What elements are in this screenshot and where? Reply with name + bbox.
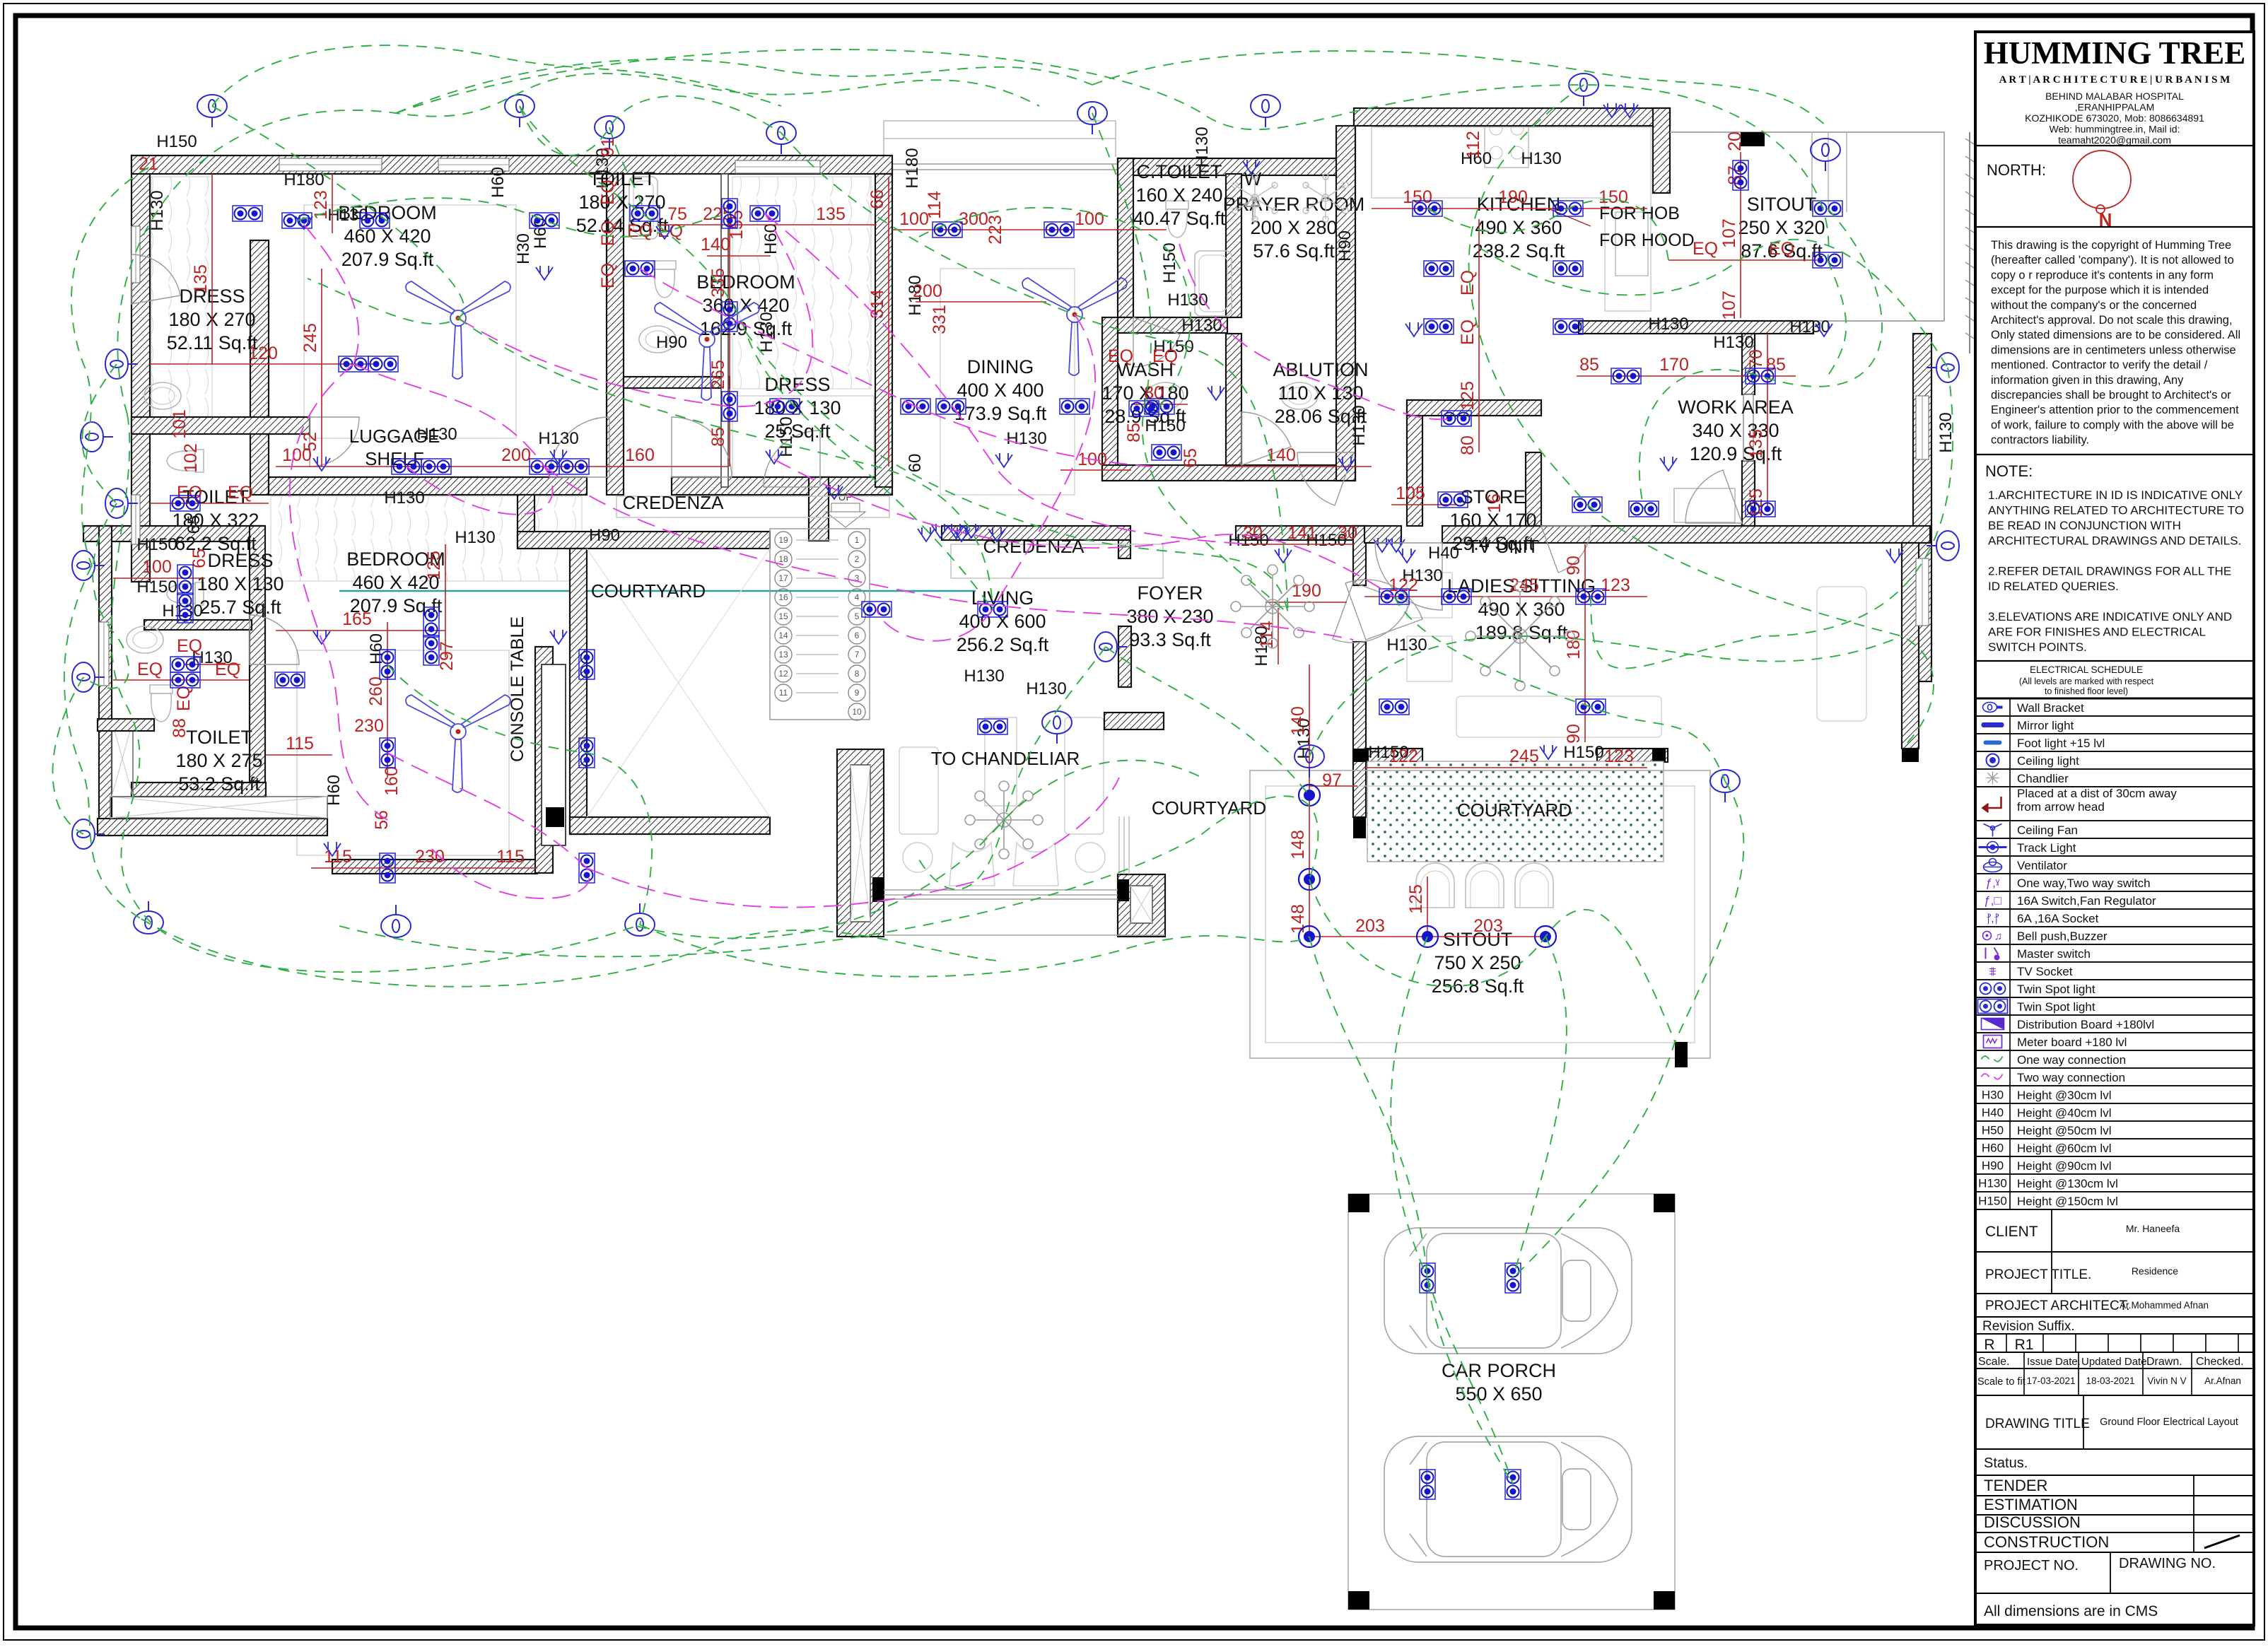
svg-text:EQ: EQ (1108, 346, 1133, 366)
door arc (1297, 452, 1354, 505)
wash basin (1147, 382, 1183, 409)
stippled courtyard (1367, 761, 1664, 862)
svg-text:165: 165 (342, 609, 372, 629)
twin spot light (1420, 1263, 1435, 1293)
svg-text:112: 112 (1463, 131, 1483, 159)
twin spot light (423, 607, 439, 637)
svg-text:17-03-2021: 17-03-2021 (2026, 1376, 2075, 1386)
svg-text:ID RELATED QUERIES.: ID RELATED QUERIES. (1988, 580, 2119, 593)
console table (542, 664, 566, 845)
ladies chairs (1407, 573, 1452, 618)
svg-text:53.2 Sq.ft: 53.2 Sq.ft (178, 773, 260, 795)
svg-text:PROJECT TITLE.: PROJECT TITLE. (1985, 1267, 2091, 1282)
wall dress2 south wall (672, 477, 892, 495)
svg-text:200: 200 (913, 281, 942, 301)
svg-text:TV UNIT: TV UNIT (1467, 536, 1538, 557)
section line (339, 590, 976, 592)
svg-text:400 X 400: 400 X 400 (957, 380, 1044, 401)
door arc (549, 417, 609, 477)
wall c.toilet west wall (1118, 158, 1133, 317)
svg-text:Status.: Status. (1984, 1455, 2028, 1471)
door arc (1375, 543, 1442, 610)
svg-text:EQ: EQ (598, 221, 618, 246)
svg-text:H150: H150 (136, 535, 177, 554)
svg-text:16: 16 (778, 592, 788, 602)
svg-text:ELECTRICAL SCHEDULE: ELECTRICAL SCHEDULE (2030, 664, 2143, 675)
svg-text:203: 203 (1355, 916, 1385, 936)
6A/16A socket (988, 527, 1005, 541)
scale/date header (1975, 1352, 2254, 1368)
window (131, 226, 140, 283)
wall bracket (1094, 632, 1127, 662)
svg-text:4: 4 (855, 592, 860, 602)
wall bracket (1710, 770, 1740, 802)
twin spot light (579, 738, 595, 768)
wall c.toilet south wall (1118, 317, 1227, 333)
twin spot light (1420, 1470, 1435, 1499)
svg-text:Foot light +15 lvl: Foot light +15 lvl (2017, 737, 2105, 750)
6A/16A socket (324, 842, 341, 856)
svg-text:DRAWING NO.: DRAWING NO. (2119, 1556, 2216, 1571)
one-way connection wire (1639, 209, 1882, 509)
two-way connection wire (1179, 244, 1456, 419)
wall kitchen south band (1579, 321, 1813, 334)
svg-text:⳨,⳨: ⳨,⳨ (1986, 913, 1999, 925)
wall lower divider wall (250, 526, 265, 783)
door arc (672, 417, 732, 477)
column (1654, 1591, 1675, 1610)
one-way connection wire (339, 796, 1318, 956)
svg-text:CLIENT: CLIENT (1985, 1224, 2038, 1240)
ceiling fan (406, 695, 510, 792)
lintel (1741, 132, 1765, 146)
one-way connection wire (1479, 240, 1948, 368)
6A/16A socket (536, 266, 553, 280)
toilet bowl (167, 450, 204, 472)
two-way connection wire (387, 753, 590, 898)
svg-text:H60: H60 (367, 633, 386, 664)
one-way connection wire (636, 761, 1202, 939)
one-way connection wire (82, 364, 117, 503)
wall bracket (81, 422, 113, 452)
svg-text:Ar.Mohammed Afnan: Ar.Mohammed Afnan (2120, 1300, 2209, 1311)
svg-text:FOR HOOD: FOR HOOD (1599, 230, 1695, 250)
svg-text:SWITCH POINTS.: SWITCH POINTS. (1988, 640, 2087, 654)
one-way connection wire (1391, 937, 1513, 1484)
wall tv block north wall e (1442, 526, 1930, 543)
credenza cabinet (951, 544, 1163, 578)
svg-text:110 X 130: 110 X 130 (1278, 382, 1363, 404)
luggage shelf box (271, 496, 582, 581)
column (1654, 1194, 1675, 1212)
twin spot light (1553, 261, 1583, 276)
svg-text:490 X 360: 490 X 360 (1475, 217, 1562, 238)
svg-text:of work, failure to comply: of work, failure to comply with the abov… (1991, 418, 2234, 431)
svg-text:Mr. Haneefa: Mr. Haneefa (2126, 1223, 2180, 1234)
svg-text:65: 65 (189, 549, 209, 568)
svg-text:Meter board +180 lvl: Meter board +180 lvl (2017, 1036, 2127, 1049)
wall c.toilet east wall (1226, 174, 1241, 317)
svg-text:mentioned. Contractor to: mentioned. Contractor to verify the deta… (1991, 359, 2208, 372)
svg-text:203: 203 (1473, 916, 1503, 936)
one-way connection wire (396, 59, 1092, 113)
svg-text:from arrow head: from arrow head (2017, 800, 2105, 814)
prayer arrow (1246, 197, 1260, 221)
svg-text:115: 115 (286, 734, 314, 754)
svg-text:Placed at a dist of 30cm away: Placed at a dist of 30cm away (2017, 787, 2177, 800)
svg-text:HUMMING TREE: HUMMING TREE (1984, 35, 2245, 71)
svg-text:140: 140 (701, 235, 730, 254)
wall luggage stub (809, 477, 829, 541)
svg-text:122: 122 (1389, 575, 1418, 595)
svg-text:245: 245 (300, 323, 320, 353)
svg-text:H180: H180 (283, 170, 324, 189)
svg-text:120.9 Sq.ft: 120.9 Sq.ft (1690, 443, 1782, 464)
svg-text:8: 8 (855, 669, 860, 679)
svg-text:H130: H130 (455, 528, 495, 547)
wall toilet1 top wall (131, 417, 310, 434)
svg-text:ANYTHING RELATED TO ARCHITECTU: ANYTHING RELATED TO ARCHITECTURE TO (1988, 504, 2244, 517)
wall bracket (505, 95, 534, 127)
svg-text:Ceiling Fan: Ceiling Fan (2017, 823, 2078, 837)
svg-text:107: 107 (1719, 291, 1739, 320)
ceiling light (1417, 926, 1438, 947)
twin spot light (368, 356, 398, 372)
svg-text:This drawing is the copyright: This drawing is the copyright of Humming… (1991, 239, 2231, 252)
twin spot light (1379, 699, 1409, 715)
svg-text:H150: H150 (1978, 1195, 2007, 1208)
svg-text:331: 331 (930, 305, 949, 334)
svg-text:16: 16 (1485, 493, 1504, 513)
wash basin (144, 382, 181, 409)
svg-text:100: 100 (142, 557, 172, 577)
svg-text:Master switch: Master switch (2017, 947, 2091, 961)
twin spot light (392, 459, 421, 474)
twin spot light (1813, 201, 1842, 216)
svg-text:141: 141 (1287, 523, 1317, 543)
door arc (1241, 412, 1291, 465)
toilet bowl (150, 685, 173, 722)
svg-text:14: 14 (778, 631, 788, 640)
wall dress3/toilet divider (144, 620, 252, 630)
twin spot light (1576, 589, 1606, 604)
svg-text:150: 150 (1598, 187, 1628, 207)
svg-text:7: 7 (855, 650, 860, 660)
twin spot light (1553, 201, 1583, 216)
wall bracket (1569, 74, 1598, 106)
svg-text:contractors liability.: contractors liability. (1991, 434, 2089, 447)
column (1353, 749, 1369, 762)
twin spot light (170, 496, 200, 511)
svg-text:207.9 Sq.ft: 207.9 Sq.ft (341, 249, 434, 270)
twin spot light (1629, 501, 1659, 517)
svg-text:H130: H130 (1350, 405, 1369, 445)
svg-text:H130: H130 (162, 602, 202, 621)
two-way connection wire (765, 213, 1251, 544)
one-way connection wire (918, 647, 1106, 889)
wall wash/ablution divider (1226, 334, 1241, 481)
svg-text:122: 122 (1389, 746, 1418, 766)
wall work east wall (1913, 334, 1931, 681)
svg-text:85: 85 (1124, 423, 1144, 442)
twin spot light (170, 672, 200, 688)
svg-text:Issue Date.: Issue Date. (2027, 1356, 2081, 1368)
svg-text:5: 5 (855, 611, 860, 621)
wall bracket (72, 551, 105, 580)
svg-text:10: 10 (852, 707, 862, 717)
one-way connection wire (71, 168, 148, 565)
door arc (1345, 580, 1422, 640)
svg-text:40.47 Sq.ft: 40.47 Sq.ft (1133, 208, 1226, 229)
svg-text:H40: H40 (1428, 544, 1459, 563)
6A/16A socket (918, 527, 935, 541)
wall corridor stub (518, 495, 534, 549)
bathtub (1195, 251, 1232, 316)
bed bedroom1 (304, 205, 516, 438)
kitchen counter (1372, 127, 1651, 311)
svg-text:Updated Date.: Updated Date. (2081, 1356, 2150, 1368)
svg-text:H60: H60 (325, 775, 344, 806)
svg-text:135: 135 (191, 264, 211, 294)
svg-text:66: 66 (867, 189, 887, 209)
wall foyer south-west stub (1104, 713, 1164, 729)
wall bracket (1251, 95, 1280, 127)
twin spot light (1424, 261, 1454, 276)
window (735, 160, 820, 173)
one-way connection wire (396, 49, 1828, 260)
6A/16A socket (932, 524, 949, 538)
project title box (1975, 1252, 2254, 1294)
window (279, 158, 382, 171)
svg-text:105: 105 (1396, 483, 1425, 503)
twin spot light (750, 206, 780, 221)
revision suffix (1975, 1317, 2254, 1334)
svg-text:ARCHITECTURAL DRAWINGS AND DET: ARCHITECTURAL DRAWINGS AND DETAILS. (1988, 534, 2241, 548)
column (1902, 749, 1919, 762)
svg-text:H130: H130 (1978, 1177, 2007, 1190)
svg-text:85: 85 (708, 427, 728, 447)
one-way connection wire (520, 96, 781, 156)
svg-text:Height @90cm lvl: Height @90cm lvl (2017, 1159, 2111, 1173)
twin spot light (380, 853, 395, 883)
sitout outline (1670, 132, 1944, 321)
svg-text:EQ: EQ (1458, 320, 1478, 345)
credenza1 cabinet (616, 496, 889, 517)
svg-text:Distribution Board +180lvl: Distribution Board +180lvl (2017, 1018, 2154, 1031)
wall wash west wall (1102, 317, 1118, 481)
svg-text:H90: H90 (1335, 230, 1355, 262)
svg-text:15: 15 (778, 611, 788, 621)
wall console wall (535, 647, 553, 873)
svg-text:H130: H130 (1386, 635, 1427, 655)
svg-text:EQ: EQ (1769, 239, 1794, 259)
svg-text:EQ: EQ (598, 263, 618, 288)
svg-text:H130: H130 (1006, 429, 1046, 448)
one-way connection wire (1427, 199, 1668, 260)
sill X panel (110, 797, 327, 818)
svg-text:160 X 240: 160 X 240 (1135, 184, 1222, 206)
svg-text:Wall Bracket: Wall Bracket (2017, 701, 2084, 715)
svg-text:without the company's: without the company's or the concerned (1990, 299, 2197, 312)
6A/16A socket (313, 630, 330, 644)
svg-text:ƒ,ˠ: ƒ,ˠ (1986, 877, 2000, 890)
wall store west wall (1407, 400, 1422, 526)
ceiling fan (1022, 278, 1127, 375)
wall foyer east wall upper (1353, 526, 1366, 585)
6A/16A socket (1816, 322, 1832, 336)
svg-text:25.7 Sq.ft: 25.7 Sq.ft (199, 597, 281, 618)
svg-text:PROJECT NO.: PROJECT NO. (1984, 1558, 2079, 1573)
two-way connection wire (774, 459, 1394, 597)
one-way connection wire (919, 208, 1191, 406)
door arc (250, 615, 299, 664)
twin spot light (530, 213, 559, 228)
6A/16A socket (1398, 549, 1415, 563)
svg-text:Bell push,Buzzer: Bell push,Buzzer (2017, 930, 2108, 943)
svg-text:ESTIMATION: ESTIMATION (1984, 1496, 2078, 1513)
svg-text:FOYER: FOYER (1137, 582, 1203, 604)
courtyard X (587, 549, 770, 817)
ceiling fan (655, 303, 759, 400)
door arc (1333, 582, 1410, 643)
thin partition (721, 174, 728, 487)
all dims note (1975, 1593, 2254, 1625)
wall bedroom1 south wall (269, 477, 587, 495)
svg-text:DRESS: DRESS (207, 550, 273, 571)
one-way connection wire (53, 677, 84, 834)
svg-text:R: R (1984, 1337, 1994, 1353)
chandelier (965, 781, 1043, 859)
twin spot light (339, 356, 368, 372)
svg-text:160: 160 (382, 766, 402, 796)
twin spot light (1576, 699, 1606, 715)
one-way connection wire (1106, 647, 1309, 795)
svg-text:340 X 330: 340 X 330 (1692, 420, 1779, 441)
twin spot light (360, 213, 390, 228)
one-way connection wire (1394, 597, 1725, 781)
svg-text:97: 97 (1322, 770, 1342, 790)
svg-text:R1: R1 (2015, 1337, 2034, 1353)
svg-text:Chandlier: Chandlier (2017, 772, 2069, 785)
svg-text:H130: H130 (1193, 127, 1212, 167)
two-way connection wire (544, 467, 1353, 640)
svg-text:Ventilator: Ventilator (2017, 859, 2067, 872)
svg-text:teamaht2020@gmail.com: teamaht2020@gmail.com (2058, 134, 2171, 146)
status rows (1975, 1475, 2254, 1496)
column (1348, 1591, 1369, 1610)
svg-text:189.8 Sq.ft: 189.8 Sq.ft (1475, 622, 1568, 643)
car (1384, 1436, 1632, 1562)
svg-text:TOILET: TOILET (186, 727, 252, 748)
one-way connection wire (1513, 937, 1567, 1278)
wall toilet2/dress2 divider (624, 377, 730, 388)
svg-text:245: 245 (1509, 746, 1539, 766)
svg-text:Height @150cm lvl: Height @150cm lvl (2017, 1195, 2118, 1208)
two-way connection wire (290, 364, 387, 820)
ceiling light (1299, 869, 1320, 890)
svg-text:H130: H130 (1648, 315, 1688, 334)
svg-text:H180: H180 (903, 148, 922, 188)
two-way connection wire (640, 269, 1152, 467)
wall corridor south wall (518, 532, 770, 549)
wall kitchen east wall (1653, 108, 1670, 193)
wall bracket (197, 95, 227, 127)
wardrobe bedroom2 (732, 177, 871, 389)
svg-text:CAR PORCH: CAR PORCH (1442, 1360, 1556, 1381)
svg-text:148: 148 (1288, 904, 1308, 934)
svg-text:Scale.: Scale. (1978, 1356, 2009, 1368)
one-way connection wire (212, 106, 464, 324)
window (438, 158, 509, 171)
wall left outer wall (131, 156, 150, 582)
svg-text:H150: H150 (1145, 416, 1185, 435)
roof tick line (1969, 132, 1970, 353)
svg-text:173.9 Sq.ft: 173.9 Sq.ft (954, 403, 1047, 424)
svg-text:3.ELEVATIONS ARE INDICATIVE: 3.ELEVATIONS ARE INDICATIVE ONLY AND (1988, 610, 2232, 623)
twin spot light (722, 392, 737, 421)
one-way connection wire (1591, 368, 1953, 669)
door arc (1685, 470, 1742, 523)
svg-text:DRAWING TITLE: DRAWING TITLE (1985, 1417, 2090, 1431)
wall wash block south wall (1102, 465, 1355, 481)
window (99, 622, 109, 686)
svg-text:H90: H90 (1982, 1159, 2004, 1173)
column (1118, 879, 1129, 901)
6A/16A socket (953, 527, 970, 541)
svg-text:information given in: information given in this drawing, Any (1991, 374, 2184, 387)
svg-text:490 X 360: 490 X 360 (1478, 599, 1565, 620)
svg-text:135: 135 (1746, 429, 1766, 459)
wall courtyard west wall (570, 549, 587, 834)
svg-text:discrepancies shall be broug: discrepancies shall be brought to Archit… (1991, 389, 2231, 402)
svg-text:H150: H150 (777, 416, 796, 457)
kitchen sink (1615, 212, 1648, 276)
svg-text:BE READ IN CONJUNCTIO: BE READ IN CONJUNCTION WITH (1988, 519, 2181, 532)
pier (1675, 1042, 1688, 1067)
svg-text:Track Light: Track Light (2017, 841, 2076, 855)
two-way connection wire (304, 225, 358, 364)
two-way connection wire (353, 364, 553, 515)
svg-text:H130: H130 (416, 425, 457, 444)
wall compound south wall (98, 819, 327, 836)
door arc (131, 254, 180, 304)
wall lower left outer wall (99, 526, 112, 836)
svg-text:115: 115 (496, 847, 525, 867)
6A/16A socket (1374, 538, 1391, 552)
wall credenza L-stub (1118, 540, 1130, 558)
kitchen hob (1485, 115, 1528, 168)
wall bracket (1927, 531, 1959, 561)
work sink (1674, 488, 1735, 522)
svg-text:250 X 320: 250 X 320 (1738, 217, 1825, 238)
svg-text:,ERANHIPPALAM: ,ERANHIPPALAM (2075, 102, 2155, 113)
svg-text:1.ARCHITECTURE IN ID IS INDICA: 1.ARCHITECTURE IN ID IS INDICATIVE ONLY (1988, 488, 2243, 502)
wall bracket (105, 349, 138, 379)
toilet bowl (653, 261, 676, 298)
one-way connection wire (1092, 51, 1828, 127)
svg-text:ƒ,□: ƒ,□ (1984, 894, 2001, 908)
svg-text:6A ,16A Socket: 6A ,16A Socket (2017, 912, 2099, 925)
wall work arm upper (1742, 334, 1755, 394)
6A/16A socket (1405, 322, 1422, 336)
svg-text:ARE FOR FINISHES AND: ARE FOR FINISHES AND ELECTRICAL (1988, 626, 2206, 639)
twin spot light (423, 635, 439, 665)
6A/16A socket (1621, 103, 1638, 117)
wash basin (127, 626, 163, 653)
wall bracket (625, 903, 655, 936)
svg-text:Drawn.: Drawn. (2146, 1356, 2182, 1368)
prayer fans (1232, 174, 1348, 222)
